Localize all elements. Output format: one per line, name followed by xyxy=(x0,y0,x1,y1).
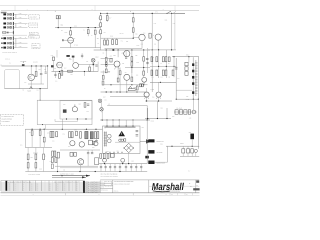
mid bus C xyxy=(105,47,143,49)
svg-text:R70: R70 xyxy=(87,111,90,113)
power amp pcb outline xyxy=(37,100,92,124)
junction dot HT4 xyxy=(171,13,172,14)
svg-text:22k: 22k xyxy=(98,25,100,27)
output cap row 4 xyxy=(114,164,116,172)
resistor R15b xyxy=(132,28,134,32)
svg-text:CN: CN xyxy=(0,64,2,66)
psu cap 1 xyxy=(136,130,139,131)
junction dot R4 xyxy=(173,56,174,57)
resistor RD1 xyxy=(31,131,33,136)
wire v1437c xyxy=(143,75,145,77)
V1a grid line xyxy=(64,39,74,41)
resistor RC12 xyxy=(117,78,119,82)
ground bus bottom xyxy=(25,171,147,173)
output cap mark 5 xyxy=(119,167,121,168)
psu wire up 5 xyxy=(132,120,134,126)
resistor R8 anode xyxy=(70,31,72,35)
junction dot B1 xyxy=(61,175,62,176)
svg-text:ISS.2 ECN104: ISS.2 ECN104 xyxy=(85,184,100,186)
sheet top border line xyxy=(1,10,199,12)
svg-text:8k2: 8k2 xyxy=(152,77,154,79)
psu pcb outline xyxy=(103,126,141,154)
psu bottom pad 5 xyxy=(122,152,123,153)
resistor R17 xyxy=(112,40,114,45)
bottom border cell divider c xyxy=(184,193,186,196)
reverb enclosure xyxy=(60,101,92,119)
TR1 base wire xyxy=(30,66,32,74)
OT bottom dot 3 xyxy=(176,99,177,100)
bottom border tick x65 xyxy=(65,193,67,196)
wire v401 xyxy=(39,135,41,147)
svg-text:R80: R80 xyxy=(107,151,110,153)
svg-text:8k2: 8k2 xyxy=(161,77,163,79)
svg-text:100k: 100k xyxy=(136,45,139,47)
jack tip row5 xyxy=(1,38,3,39)
junction dot R0 xyxy=(158,49,159,50)
svg-text:SPEED: SPEED xyxy=(33,45,37,47)
resistor R6 (jack) xyxy=(10,42,12,44)
wire v1181b xyxy=(117,66,119,79)
wire v1663 xyxy=(165,50,167,78)
wire jack row 6 xyxy=(14,42,28,44)
wire v1201 xyxy=(119,68,121,71)
junction dot O2 xyxy=(122,163,123,164)
wire jack row 4 xyxy=(14,26,28,28)
volume pot wiper xyxy=(22,64,25,66)
input row35 wire xyxy=(2,34,27,36)
wire jack row 1 xyxy=(14,13,28,15)
T1 core circle 1 xyxy=(107,134,111,138)
output cap mark 3 xyxy=(109,167,111,168)
left stack box 3 xyxy=(51,164,53,169)
wire v281 xyxy=(27,148,29,155)
capacitor C53 black xyxy=(190,134,194,140)
resistor RL4 xyxy=(27,163,29,168)
V1b grid wire xyxy=(133,36,139,38)
driver bus low xyxy=(60,149,100,151)
bridge dot L xyxy=(124,148,125,149)
junction dot M5 xyxy=(40,88,41,89)
output cap row 9 xyxy=(140,164,142,172)
junction dot M3 xyxy=(41,65,42,66)
svg-text:ISS.6 ECN104: ISS.6 ECN104 xyxy=(85,192,100,194)
jack switch diagonal 5 xyxy=(8,37,11,39)
psu cap 2 xyxy=(136,135,139,136)
svg-text:470k: 470k xyxy=(19,42,22,44)
svg-text:R10: R10 xyxy=(57,184,60,186)
bridge lower wire xyxy=(128,153,130,164)
resistor R2 (jack) xyxy=(10,18,12,20)
svg-text:2k2: 2k2 xyxy=(122,52,124,54)
svg-text:10k: 10k xyxy=(135,55,138,57)
resistor RB2 xyxy=(54,151,56,156)
junction dot C11 xyxy=(120,91,121,92)
svg-text:220k: 220k xyxy=(65,32,68,34)
junction dot O5 xyxy=(79,171,80,172)
resistor RC11 xyxy=(102,75,104,79)
wire jack row 5 xyxy=(14,37,28,39)
junction dot D2b xyxy=(59,71,60,72)
black module M1 xyxy=(148,139,154,142)
wire C8 xyxy=(40,66,42,73)
reg circle xyxy=(192,110,196,114)
wire v1574 drop xyxy=(156,101,158,119)
psu small box xyxy=(124,139,126,141)
right rail low xyxy=(197,99,199,149)
resistor RL3 xyxy=(27,154,29,160)
svg-text:ISSUE 5 JCM900 4001-50W: ISSUE 5 JCM900 4001-50W xyxy=(114,183,131,185)
dark comp D2 xyxy=(90,132,93,139)
cap CC2 xyxy=(146,63,148,64)
short bus s3 xyxy=(110,96,148,98)
svg-text:TR7: TR7 xyxy=(68,146,71,148)
svg-text:22u: 22u xyxy=(136,74,139,76)
wire V1 anode xyxy=(70,28,72,38)
svg-text:EFFECTS: EFFECTS xyxy=(102,107,104,113)
wire v442b xyxy=(43,142,45,147)
svg-text:LOW INPUT: LOW INPUT xyxy=(29,25,36,27)
marshall logo swash xyxy=(153,190,170,193)
input ground bus seg3 xyxy=(15,38,17,44)
wire v442 xyxy=(43,129,45,137)
coupling bus xyxy=(79,64,94,66)
transistor TR10 xyxy=(94,141,98,145)
fx jack circle xyxy=(91,58,95,62)
wire C5b stub xyxy=(107,38,109,40)
selector drop 3 xyxy=(191,153,193,156)
resistor RO2 xyxy=(103,154,105,159)
resistor R25h xyxy=(68,70,73,72)
psu exit wire 2 xyxy=(113,154,115,159)
input row3 mark b xyxy=(7,32,9,34)
psu wire up 4 xyxy=(125,120,127,126)
resistor RL1 xyxy=(35,154,37,160)
box stack RR9c xyxy=(185,72,188,76)
grid stopper bar row 1 xyxy=(12,13,15,16)
svg-text:NEON: NEON xyxy=(180,143,184,145)
wire TR12 up xyxy=(146,88,148,92)
cap C11b plates xyxy=(81,55,83,56)
transistor TR2 xyxy=(114,61,120,67)
svg-text:R10: R10 xyxy=(36,190,39,192)
svg-text:+VE REG: +VE REG xyxy=(176,108,182,110)
jack switch diagonal 3 xyxy=(8,22,11,24)
wire b57 down xyxy=(57,158,59,172)
svg-text:R10: R10 xyxy=(63,186,66,188)
svg-text:C52: C52 xyxy=(172,116,175,118)
output TR8 xyxy=(121,158,125,162)
resistor RC4 xyxy=(131,62,133,66)
warning triangle mark xyxy=(121,133,123,135)
volume bus xyxy=(2,65,48,67)
wire jack row 7 xyxy=(14,47,28,49)
junction dot G2 xyxy=(147,119,148,120)
svg-text:HT1: HT1 xyxy=(155,11,158,13)
preamp bus A xyxy=(55,27,101,29)
dashed note box 5 xyxy=(32,44,40,49)
resistor RR0a xyxy=(151,57,153,62)
junction dot R3 xyxy=(173,66,174,67)
wire v1319 xyxy=(131,50,133,73)
svg-text:10u: 10u xyxy=(24,82,26,84)
input jack J6 body xyxy=(3,42,6,44)
wire v623 up xyxy=(61,119,63,129)
svg-text:10k: 10k xyxy=(98,18,100,20)
junction dot O4 xyxy=(57,171,58,172)
V2a grid bar xyxy=(57,64,62,66)
resistor RR0b xyxy=(151,70,153,76)
junction dot T0 xyxy=(133,38,134,39)
wire C8 low xyxy=(40,75,42,84)
wire x95 down xyxy=(94,34,96,47)
grid stopper bar row 7 xyxy=(12,46,15,49)
junction dot O1 xyxy=(104,163,105,164)
bottom border tick x133 xyxy=(132,193,134,196)
svg-text:FX: FX xyxy=(105,99,107,101)
resistor RD8 xyxy=(71,132,73,138)
power transistor TR13 xyxy=(156,92,161,97)
wire v281b xyxy=(27,168,29,172)
bias bus lower xyxy=(60,167,98,169)
junction dot A2 xyxy=(88,27,89,28)
svg-text:R10: R10 xyxy=(14,188,17,190)
jack J1 contact xyxy=(7,14,8,16)
OT pad 3 xyxy=(192,76,194,79)
output bus xyxy=(99,163,147,165)
svg-text:470k: 470k xyxy=(19,46,22,48)
junction dot V5 xyxy=(86,129,87,130)
box pair BP1b xyxy=(142,84,144,87)
junction dot R1 xyxy=(158,66,159,67)
svg-text:o/p: o/p xyxy=(108,104,110,106)
resistor R9 vertical xyxy=(87,30,89,34)
wire down to FX xyxy=(39,89,41,101)
svg-text:ALL RESISTORS 5%: ALL RESISTORS 5% xyxy=(1,116,14,118)
cap C11b xyxy=(81,53,83,58)
resistor R18 xyxy=(116,40,118,45)
output cap mark 7 xyxy=(130,167,132,168)
output cap mark 1 xyxy=(100,167,102,168)
junction dot O6 xyxy=(95,171,96,172)
psu bus dot 1 xyxy=(107,120,108,121)
lower left bus xyxy=(25,147,52,149)
box RB6 xyxy=(95,158,99,165)
speaker wire lower line xyxy=(52,176,86,178)
junction dot A3 xyxy=(95,27,96,28)
input jack J4 body xyxy=(3,26,6,28)
svg-text:465V: 465V xyxy=(186,55,189,57)
svg-text:R10: R10 xyxy=(57,186,60,188)
driver bus xyxy=(25,128,102,130)
T1 core circle 2 xyxy=(107,139,111,143)
wire v1475 xyxy=(147,48,149,73)
svg-text:1M LOG: 1M LOG xyxy=(33,62,38,64)
junction dot C15 xyxy=(116,91,117,92)
svg-text:C50: C50 xyxy=(142,127,145,129)
svg-text:MAINS FUSE: MAINS FUSE xyxy=(157,162,166,164)
wire C5 stub xyxy=(104,38,106,40)
wire v1201c xyxy=(119,75,121,92)
OT bottom dot 2 xyxy=(198,99,199,100)
short bus s1 xyxy=(101,58,113,60)
parts table heavy bar xyxy=(6,181,8,191)
valve V1a triode xyxy=(68,37,74,43)
svg-text:No. DESCRIPTION QTY PART No. R: No. DESCRIPTION QTY PART No. REF xyxy=(7,182,31,184)
input jack J1 body xyxy=(3,13,6,15)
junction dot PS1 xyxy=(160,82,161,83)
svg-text:R10: R10 xyxy=(30,190,33,192)
power transistor TR12 xyxy=(144,92,149,97)
junction dot C12 xyxy=(106,91,107,92)
V3 cathode drop xyxy=(146,97,148,101)
psu inner wire xyxy=(115,141,140,143)
svg-text:OUTPUT 80W / 4 OHM: OUTPUT 80W / 4 OHM xyxy=(60,173,74,175)
junction dot S3 xyxy=(166,118,167,119)
svg-text:ISS.1 ECN104: ISS.1 ECN104 xyxy=(85,182,100,184)
psu bottom pad 1 xyxy=(106,152,107,153)
thermal circle 2 xyxy=(121,139,124,142)
TR13 legs xyxy=(156,97,160,99)
svg-text:220k: 220k xyxy=(151,57,154,59)
speaker arrow xyxy=(146,139,151,143)
pot P2 drop xyxy=(72,58,74,63)
mains bus xyxy=(166,145,199,147)
svg-text:APPD: APPD xyxy=(101,187,104,189)
psu connector strip xyxy=(105,126,136,128)
output cap mark 9 xyxy=(140,167,142,168)
output cap row 6 xyxy=(125,164,127,172)
svg-text:4u7: 4u7 xyxy=(125,72,127,74)
OT right rail xyxy=(197,57,199,99)
wire v167 drop xyxy=(166,108,168,119)
black connector xyxy=(145,156,149,159)
voltage selector box 1 xyxy=(182,149,185,153)
svg-text:R10: R10 xyxy=(30,188,33,190)
resistor RD3 xyxy=(43,137,45,142)
junction dot N2 xyxy=(192,146,193,147)
junction dot R6b xyxy=(158,100,159,101)
svg-text:R60: R60 xyxy=(185,70,188,72)
switch dot a xyxy=(167,13,168,14)
resistor RR2 xyxy=(162,57,164,62)
wire TR9 down xyxy=(80,165,82,172)
box stack RR9b xyxy=(185,67,188,71)
jack switch diagonal 7 xyxy=(8,46,11,48)
center bus mid xyxy=(101,64,115,66)
wire v281c xyxy=(27,160,29,163)
corner tick xyxy=(174,11,176,13)
OT winding rungs xyxy=(195,62,197,93)
phase box right line xyxy=(174,14,176,50)
svg-text:R10: R10 xyxy=(14,184,17,186)
power bus G xyxy=(100,119,150,121)
regulator row wire xyxy=(174,111,197,113)
resistor RR5 xyxy=(156,70,158,76)
psu exit wire 1 xyxy=(110,154,112,159)
svg-text:NORMAL: NORMAL xyxy=(29,37,35,39)
feedback bus xyxy=(5,88,48,90)
box stack RR9a xyxy=(185,62,188,66)
svg-text:RET: RET xyxy=(103,96,106,98)
svg-text:4/8: 4/8 xyxy=(63,169,65,171)
resistor RC5 xyxy=(143,57,145,61)
valve V2a circle xyxy=(57,62,63,68)
svg-text:A2: A2 xyxy=(171,194,173,196)
junction dot M1 xyxy=(31,65,32,66)
box RB5 xyxy=(74,152,77,156)
svg-text:R24: R24 xyxy=(64,68,67,70)
junction dot C14 xyxy=(143,84,144,85)
OT pad 4 xyxy=(192,82,194,85)
svg-text:SW1: SW1 xyxy=(165,19,168,21)
OT pad 2 xyxy=(192,70,194,73)
svg-text:BLETCHLEY MILTON KEYNES ENGL: BLETCHLEY MILTON KEYNES ENGLAND xyxy=(162,191,180,193)
reverb out stub xyxy=(54,119,56,122)
resistor RC1 xyxy=(105,58,107,62)
resistor RD10 xyxy=(80,132,82,139)
psu bottom pad 3 xyxy=(114,152,115,153)
junction dot R2 xyxy=(166,66,167,67)
svg-text:4-8-16: 4-8-16 xyxy=(186,99,190,101)
reverb out stub2 xyxy=(76,119,78,122)
wire v1889 xyxy=(188,57,190,63)
sheet outer top border xyxy=(0,5,200,7)
dashed note box 1 xyxy=(29,15,40,19)
box RO4 xyxy=(110,153,114,157)
wire jack row 2 xyxy=(14,17,28,19)
pcb outline dot xyxy=(42,124,43,125)
resistor RL5 xyxy=(35,163,37,168)
wire phase right xyxy=(171,13,173,50)
outer border tick a xyxy=(14,6,16,11)
svg-text:L1 OUTPUT CHOKE: L1 OUTPUT CHOKE xyxy=(28,174,40,176)
svg-text:R20: R20 xyxy=(39,69,42,71)
dark node K xyxy=(66,55,69,57)
svg-text:TR10 TIP3055 TR11 TIP2955: TR10 TIP3055 TR11 TIP2955 xyxy=(101,176,118,178)
svg-text:DATE 9.6.93: DATE 9.6.93 xyxy=(101,189,108,191)
warning triangle xyxy=(118,131,125,136)
wire v126 xyxy=(125,50,127,57)
svg-text:R10: R10 xyxy=(57,190,60,192)
junction dot C1 xyxy=(106,49,107,50)
input ground bus seg1 xyxy=(15,14,17,19)
TR9 inner xyxy=(79,160,82,164)
left stack box 1 xyxy=(51,158,53,163)
svg-text:C11: C11 xyxy=(86,61,89,63)
resistor RR4 xyxy=(168,57,170,62)
svg-text:R75: R75 xyxy=(47,132,50,134)
svg-text:1k8: 1k8 xyxy=(136,62,138,64)
output cap mark 8 xyxy=(135,167,137,168)
pot P3 wiper xyxy=(129,86,132,88)
resistor RR8 xyxy=(172,70,174,76)
junction dot V6 xyxy=(95,129,96,130)
resistor R26 xyxy=(89,67,91,71)
junction blob K2 xyxy=(93,64,95,66)
psu bus dot 4 xyxy=(133,120,134,121)
transistor TR3 xyxy=(124,74,130,80)
grid stopper bar row 3 xyxy=(12,22,15,25)
jack J6 contact xyxy=(7,42,8,44)
dark comp D1 xyxy=(85,131,88,138)
junction dot A1 xyxy=(58,27,59,28)
svg-text:R10: R10 xyxy=(30,186,33,188)
resistor RD4 xyxy=(50,131,52,137)
wire R27 stub xyxy=(58,72,60,74)
standby switch xyxy=(167,11,171,13)
input jack J7 body xyxy=(3,47,6,49)
wire v1675 xyxy=(167,146,169,162)
